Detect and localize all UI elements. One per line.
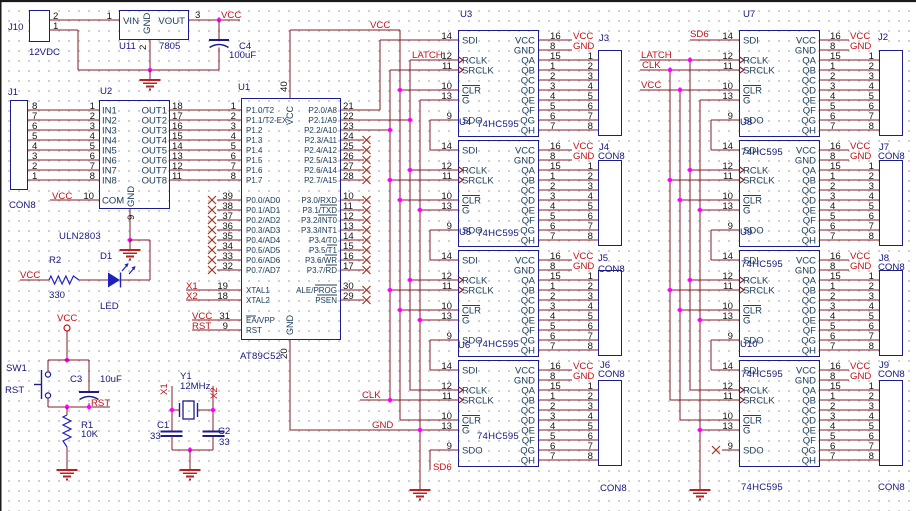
svg-text:SW1: SW1 xyxy=(6,363,27,374)
svg-text:P0.5/AD5: P0.5/AD5 xyxy=(246,246,281,255)
svg-text:P0.1/AD1: P0.1/AD1 xyxy=(246,206,281,215)
label CON8 bottom of column xyxy=(878,482,905,493)
svg-text:SDI: SDI xyxy=(462,256,478,267)
wire U3 SDO to U4 SDI loop xyxy=(430,120,458,150)
connector J8 xyxy=(878,253,905,356)
shift register U10 74HC595 xyxy=(739,339,820,493)
svg-text:28: 28 xyxy=(343,171,354,182)
svg-text:CLK: CLK xyxy=(642,60,661,71)
wire U2 OUT8 to U1 P1.7 xyxy=(170,171,241,182)
svg-text:P2.7/A15: P2.7/A15 xyxy=(304,176,337,185)
power port GND at U8 pin 8 xyxy=(820,151,871,162)
U10 SDO no-connect stub xyxy=(712,446,739,454)
svg-text:P0.6/AD6: P0.6/AD6 xyxy=(246,256,281,265)
wire U6 CLR xyxy=(400,419,458,421)
power port GND at U6 pin 8 xyxy=(539,371,594,382)
svg-text:QH: QH xyxy=(802,456,816,467)
wire J1 pin 7 to U2 IN2 xyxy=(28,111,99,122)
svg-text:P2.3/A11: P2.3/A11 xyxy=(305,136,338,145)
wires U4 QA-QH to J4 xyxy=(539,161,598,242)
ground symbol under crystal xyxy=(180,450,201,480)
wires U8 QA-QH to J7 xyxy=(820,161,879,242)
svg-text:8: 8 xyxy=(588,231,593,242)
wire U4 SDO to U5 SDI loop xyxy=(430,230,458,260)
wire U5 RCLK xyxy=(410,279,458,281)
svg-text:U1: U1 xyxy=(238,82,250,93)
net label LATCH right / wire U7 RCLK xyxy=(640,50,739,61)
shift register U7 74HC595 xyxy=(739,9,820,158)
svg-text:SDI: SDI xyxy=(743,256,759,267)
svg-text:SRCLK: SRCLK xyxy=(462,66,494,77)
power port GND at U3 pin 8 xyxy=(539,41,594,52)
U9 left pin numbers xyxy=(722,251,733,342)
svg-text:74HC595: 74HC595 xyxy=(477,228,519,239)
wires U9 QA-QH to J8 xyxy=(820,271,879,352)
wire U10 G xyxy=(700,429,739,431)
svg-text:P3.5/T1: P3.5/T1 xyxy=(309,246,338,255)
U3 right pin numbers xyxy=(550,31,561,132)
svg-text:D1: D1 xyxy=(100,251,112,262)
wire U9 SRCLK xyxy=(670,289,739,291)
svg-text:SRCLK: SRCLK xyxy=(462,396,494,407)
svg-text:X2: X2 xyxy=(209,387,220,399)
svg-text:8: 8 xyxy=(869,341,874,352)
wire U11 GND pin 2 xyxy=(138,40,150,70)
svg-text:J2: J2 xyxy=(878,32,888,43)
svg-text:VCC: VCC xyxy=(52,191,72,202)
power port VCC at U9 pin 16 xyxy=(820,251,870,262)
wire U2 GND pin 9 xyxy=(126,209,137,240)
wires U7 QA-QH to J2 xyxy=(820,51,879,132)
wire J1 pin 4 to U2 IN5 xyxy=(28,141,99,152)
driver U2 ULN2803 xyxy=(59,86,170,242)
svg-text:CLK: CLK xyxy=(362,390,381,401)
svg-text:U4: U4 xyxy=(459,117,472,128)
wires U10 QA-QH to J9 xyxy=(820,381,879,462)
net label SD6 / wire U6 SDO xyxy=(430,450,458,473)
U5 right pin numbers xyxy=(550,251,561,352)
wire U9 G xyxy=(700,319,739,321)
wire VCC to U1 EA/VPP pin 31 xyxy=(192,311,241,322)
wire VCC vertical right column xyxy=(679,90,681,420)
svg-text:C3: C3 xyxy=(70,374,82,385)
ground symbol under U11 xyxy=(140,70,161,90)
capacitor C3 10uF xyxy=(70,360,122,407)
wire U10 RCLK xyxy=(690,389,739,391)
svg-text:ALE/PROG: ALE/PROG xyxy=(296,286,337,295)
svg-text:P2.4/A12: P2.4/A12 xyxy=(304,146,337,155)
svg-text:P0.4/AD4: P0.4/AD4 xyxy=(246,236,281,245)
shift register U6 74HC595 xyxy=(458,340,539,467)
wire U8 RCLK xyxy=(690,169,739,171)
svg-text:P0.2/AD2: P0.2/AD2 xyxy=(246,216,281,225)
svg-text:P1.0/T2: P1.0/T2 xyxy=(246,106,275,115)
svg-text:QH: QH xyxy=(521,456,535,467)
wire C4 to ground rail xyxy=(218,48,220,71)
power port VCC at U10 pin 16 xyxy=(820,361,870,372)
crystal Y1 12MHz xyxy=(180,371,211,419)
svg-text:G: G xyxy=(743,96,750,107)
wire U1 P2.0 pin 21 to U3 SDI column xyxy=(341,40,380,112)
wire net X1 to U1 XTAL1 pin 19 xyxy=(186,281,241,292)
svg-text:P2.5/A13: P2.5/A13 xyxy=(304,156,337,165)
wire crystal left pin / net X1 xyxy=(159,383,180,431)
svg-text:QH: QH xyxy=(521,126,535,137)
U8 left pin numbers xyxy=(722,141,733,232)
switch SW1 RST xyxy=(5,360,51,407)
svg-text:QH: QH xyxy=(802,236,816,247)
wire U6 RCLK xyxy=(410,389,458,391)
power port VCC at U8 pin 16 xyxy=(820,141,870,152)
wire J1 pin 3 to U2 IN6 xyxy=(28,151,99,162)
svg-text:VIN: VIN xyxy=(123,16,139,27)
wire U1 VCC pin 40 to top rail xyxy=(279,20,400,98)
connector J9 xyxy=(878,360,905,466)
U8 right pin numbers xyxy=(830,141,841,242)
ground symbol under U2 xyxy=(120,240,141,260)
svg-text:VCC: VCC xyxy=(57,313,77,324)
U10 left pin numbers xyxy=(722,361,733,452)
svg-text:8: 8 xyxy=(588,341,593,352)
svg-text:AT89C52: AT89C52 xyxy=(240,351,281,362)
node reset top junction xyxy=(64,357,70,363)
power port VCC at U7 pin 16 xyxy=(820,31,870,42)
svg-text:U2: U2 xyxy=(100,86,112,97)
U1 P2.3-P2.7 no-connect stubs pins 24-28 xyxy=(341,131,371,184)
wire U4 SRCLK xyxy=(390,179,458,181)
svg-text:LATCH: LATCH xyxy=(412,50,443,61)
wire J1 pin 8 to U2 IN1 xyxy=(28,101,99,112)
svg-text:10K: 10K xyxy=(81,429,99,440)
svg-text:SD6: SD6 xyxy=(433,462,452,473)
svg-text:32: 32 xyxy=(222,261,233,272)
svg-text:P3.6/WR: P3.6/WR xyxy=(305,256,337,265)
wire VCC to R2 xyxy=(20,279,49,281)
wire J1 pin 5 to U2 IN4 xyxy=(28,131,99,142)
wire LATCH vertical right column xyxy=(689,60,691,390)
svg-text:P2.2/A10: P2.2/A10 xyxy=(304,126,337,135)
svg-text:8: 8 xyxy=(588,121,593,132)
wire U11 VOUT to VCC node xyxy=(189,10,240,21)
wire U5 SDO to U6 SDI loop xyxy=(430,340,458,370)
connector J7 xyxy=(878,142,905,246)
wire U8 SRCLK xyxy=(670,179,739,181)
wire U8 G xyxy=(700,209,739,211)
svg-text:CON8: CON8 xyxy=(878,151,905,162)
svg-text:U7: U7 xyxy=(743,9,755,20)
wires U5 QA-QH to J5 xyxy=(539,271,598,352)
power port VCC top-left xyxy=(221,10,241,21)
svg-text:CON8: CON8 xyxy=(878,262,905,273)
svg-text:J1: J1 xyxy=(8,87,18,98)
U7 left pin numbers xyxy=(722,31,733,122)
svg-text:QH: QH xyxy=(802,346,816,357)
U7 right pin numbers xyxy=(830,31,841,132)
svg-text:P1.2: P1.2 xyxy=(246,126,263,135)
wires U3 QA-QH to J3 xyxy=(539,51,598,132)
svg-text:20: 20 xyxy=(279,348,290,359)
svg-text:P2.1/A9: P2.1/A9 xyxy=(309,116,338,125)
connector J6 xyxy=(598,360,625,466)
connector J1 xyxy=(8,87,36,211)
svg-text:EA/VPP: EA/VPP xyxy=(246,316,275,325)
power port VCC at U4 pin 16 xyxy=(539,141,593,152)
wire reset top rail xyxy=(48,359,89,361)
connector J4 xyxy=(598,142,625,246)
U1 P3 no-connect stubs pins 10-17 xyxy=(341,191,371,274)
svg-text:G: G xyxy=(462,96,469,107)
svg-text:OUT8: OUT8 xyxy=(142,176,167,187)
wire U4 RCLK xyxy=(410,169,458,171)
svg-text:SDI: SDI xyxy=(462,36,478,47)
power port GND at U10 pin 8 xyxy=(820,371,871,382)
wire net X2 to U1 XTAL2 pin 18 xyxy=(186,291,241,302)
svg-text:11: 11 xyxy=(172,171,182,182)
svg-text:CON8: CON8 xyxy=(600,483,627,494)
svg-text:SRCLK: SRCLK xyxy=(743,66,775,77)
wire GND vertical right column xyxy=(699,100,701,490)
wire J1 pin 1 to U2 IN8 xyxy=(28,171,99,182)
wire J1 pin 6 to U2 IN3 xyxy=(28,121,99,132)
wire VCC vertical left column xyxy=(399,30,401,420)
svg-text:P2.0/A8: P2.0/A8 xyxy=(309,106,338,115)
svg-text:U5: U5 xyxy=(459,227,471,238)
ground symbol left column xyxy=(410,490,431,500)
net label LATCH left / wire U3 RCLK xyxy=(410,50,458,61)
wire net RST to U1 RST pin 9 xyxy=(192,321,241,332)
power port VCC at R2 xyxy=(20,270,40,281)
svg-text:G: G xyxy=(743,316,750,327)
svg-text:P0.3/AD3: P0.3/AD3 xyxy=(246,226,281,235)
net label GND left / wire U6 G to U1 GND pin xyxy=(290,420,458,431)
node reset bottom junctions xyxy=(64,404,92,410)
svg-text:G: G xyxy=(743,426,750,437)
power port GND at U9 pin 8 xyxy=(820,261,871,272)
wire U3 SRCLK xyxy=(390,69,458,71)
U10 right pin numbers xyxy=(830,361,841,462)
label CON8 bottom of column xyxy=(600,483,627,494)
svg-text:J10: J10 xyxy=(8,22,23,33)
svg-text:3: 3 xyxy=(195,10,200,21)
svg-text:10: 10 xyxy=(83,191,94,202)
power port GND at U7 pin 8 xyxy=(820,41,871,52)
svg-text:COM: COM xyxy=(102,196,124,207)
svg-text:12MHz: 12MHz xyxy=(180,381,211,392)
capacitor C4 100uF xyxy=(209,40,256,61)
svg-text:9: 9 xyxy=(126,215,137,220)
svg-text:RST: RST xyxy=(246,326,262,335)
svg-text:J5: J5 xyxy=(598,253,608,264)
wire U10 SRCLK xyxy=(670,399,739,401)
svg-text:U6: U6 xyxy=(458,340,470,351)
svg-text:U8: U8 xyxy=(740,117,752,128)
svg-text:U3: U3 xyxy=(460,9,472,20)
svg-text:QH: QH xyxy=(521,236,535,247)
svg-text:SDI: SDI xyxy=(743,366,759,377)
svg-text:12VDC: 12VDC xyxy=(29,47,60,58)
svg-text:P3.1/TXD: P3.1/TXD xyxy=(302,206,337,215)
svg-text:XTAL1: XTAL1 xyxy=(246,286,270,295)
svg-text:P3.7/RD: P3.7/RD xyxy=(307,266,337,275)
shift register U3 74HC595 xyxy=(458,9,539,137)
wire VCC down to C4 xyxy=(218,20,220,40)
svg-text:G: G xyxy=(462,426,469,437)
svg-text:CON8: CON8 xyxy=(878,369,905,380)
power port GND at U5 pin 8 xyxy=(539,261,594,272)
svg-text:100uF: 100uF xyxy=(229,50,256,61)
svg-text:SRCLK: SRCLK xyxy=(743,286,775,297)
node VCC junction at C4 xyxy=(216,17,222,23)
node junctions left column xyxy=(387,87,423,433)
svg-text:U11: U11 xyxy=(119,41,136,52)
svg-text:SRCLK: SRCLK xyxy=(743,396,775,407)
svg-text:P3.4/T0: P3.4/T0 xyxy=(309,236,338,245)
svg-text:G: G xyxy=(743,206,750,217)
svg-text:VCC: VCC xyxy=(285,105,295,125)
svg-text:P0.7/AD7: P0.7/AD7 xyxy=(246,266,281,275)
svg-text:9: 9 xyxy=(223,321,228,332)
microcontroller U1 AT89C52 xyxy=(238,82,341,362)
shift register U5 74HC595 xyxy=(458,227,539,357)
svg-text:2: 2 xyxy=(138,45,149,50)
svg-text:GND: GND xyxy=(372,420,393,431)
wire VCC to reset rail xyxy=(66,331,68,360)
svg-text:LED: LED xyxy=(100,301,119,312)
svg-text:VOUT: VOUT xyxy=(158,16,185,27)
svg-text:RST: RST xyxy=(5,385,24,396)
wire U5 G xyxy=(420,319,458,321)
wire U2 OUT5 to U1 P1.4 xyxy=(170,141,241,152)
connector J2 xyxy=(878,32,903,136)
wire U2 OUT4 to U1 P1.3 xyxy=(170,131,241,142)
svg-text:8: 8 xyxy=(90,171,95,182)
wire U4 CLR xyxy=(400,199,458,201)
svg-text:33: 33 xyxy=(219,437,230,448)
svg-text:VCC: VCC xyxy=(221,10,241,21)
svg-text:RST: RST xyxy=(192,321,211,332)
svg-text:SD6: SD6 xyxy=(690,29,709,40)
svg-text:GND: GND xyxy=(285,315,295,336)
wire U3 G xyxy=(420,99,458,101)
svg-text:74HC595: 74HC595 xyxy=(477,119,519,130)
svg-text:P3.0/RXD: P3.0/RXD xyxy=(301,196,337,205)
wire J1 pin 2 to U2 IN7 xyxy=(28,161,99,172)
svg-text:C1: C1 xyxy=(157,420,169,431)
svg-text:29: 29 xyxy=(343,291,354,302)
svg-text:18: 18 xyxy=(217,291,228,302)
wire U2 OUT6 to U1 P1.5 xyxy=(170,151,241,162)
wire LED to U2 ground node xyxy=(121,240,150,280)
svg-text:SDI: SDI xyxy=(462,146,478,157)
U1 P0 no-connect stubs pins 39-32 xyxy=(208,191,241,274)
svg-text:P3.3/INT1: P3.3/INT1 xyxy=(301,226,338,235)
U1 ALE/PSEN no-connect stubs pins 30 29 xyxy=(341,281,371,304)
power port VCC at U6 pin 16 xyxy=(539,361,593,372)
svg-text:CON8: CON8 xyxy=(598,151,625,162)
svg-text:8: 8 xyxy=(869,451,874,462)
svg-text:P3.2/INT0: P3.2/INT0 xyxy=(301,216,338,225)
wire U8 CLR xyxy=(680,199,739,201)
svg-text:SRCLK: SRCLK xyxy=(462,286,494,297)
svg-text:8: 8 xyxy=(869,231,874,242)
wire U4 G xyxy=(420,209,458,211)
wire U2 OUT1 to U1 P1.0 xyxy=(170,101,241,112)
svg-text:74HC595: 74HC595 xyxy=(477,431,519,442)
wire U3 SDI xyxy=(380,39,458,41)
wire GND vertical left column xyxy=(419,100,421,490)
wire U7 G xyxy=(700,99,739,101)
power port VCC at reset xyxy=(57,313,77,331)
svg-text:40: 40 xyxy=(279,81,290,92)
net label SD6 right / wire U7 SDI xyxy=(690,29,739,40)
U6 left pin numbers xyxy=(441,361,452,452)
svg-text:P2.6/A14: P2.6/A14 xyxy=(304,166,337,175)
wire U1 P2.2 pin 23 to CLK column xyxy=(341,121,390,132)
svg-text:X2: X2 xyxy=(186,291,198,302)
svg-text:8: 8 xyxy=(231,171,236,182)
wire reset bottom rail / net RST xyxy=(48,398,110,409)
connector J10 xyxy=(8,11,60,59)
svg-text:P1.5: P1.5 xyxy=(246,156,263,165)
node ground rail junction xyxy=(147,67,153,73)
wire U9 CLR xyxy=(680,309,739,311)
ground symbol under R1 xyxy=(57,470,78,480)
svg-text:GND: GND xyxy=(142,13,153,34)
wire U5 CLR xyxy=(400,309,458,311)
wire U1 GND pin 20 down xyxy=(279,340,290,430)
svg-text:17: 17 xyxy=(343,261,354,272)
U9 right pin numbers xyxy=(830,251,841,352)
U6 right pin numbers xyxy=(550,361,561,462)
svg-text:10uF: 10uF xyxy=(100,374,122,385)
svg-text:R2: R2 xyxy=(49,255,61,266)
svg-text:VCC: VCC xyxy=(370,20,390,31)
svg-text:J3: J3 xyxy=(599,33,609,44)
wire J10 pin2 to U11 VIN xyxy=(50,11,119,22)
svg-text:1: 1 xyxy=(53,21,58,32)
wire LATCH vertical left column xyxy=(409,60,411,390)
net label CLK right / wire U7 SRCLK xyxy=(640,60,739,71)
wire U8 SDO to U9 SDI loop xyxy=(711,230,739,260)
svg-text:C2: C2 xyxy=(218,426,230,437)
svg-text:CON8: CON8 xyxy=(9,200,36,211)
svg-text:ULN2803: ULN2803 xyxy=(59,231,101,242)
node junctions right column xyxy=(667,57,703,433)
svg-text:1: 1 xyxy=(107,11,112,22)
svg-text:X1: X1 xyxy=(159,383,170,395)
svg-text:XTAL2: XTAL2 xyxy=(246,296,270,305)
svg-text:CON8: CON8 xyxy=(598,369,625,380)
shift register U4 74HC595 xyxy=(458,117,539,247)
wires U6 QA-QH to J6 xyxy=(539,381,598,462)
net label VCC right / wire U7 CLR xyxy=(640,80,739,91)
svg-text:P1.1/T2-EX: P1.1/T2-EX xyxy=(246,116,288,125)
wire U3 CLR to VCC column xyxy=(400,89,458,91)
resistor R2 330 xyxy=(49,255,79,301)
wire VCC to U2 COM pin 10 xyxy=(50,191,99,202)
ground rail top-left xyxy=(78,69,219,71)
node crystal pin junctions xyxy=(169,407,216,413)
wire crystal right pin / net X2 xyxy=(198,386,221,431)
U5 left pin numbers xyxy=(441,251,452,342)
svg-text:SDO: SDO xyxy=(462,446,483,457)
wire U1 P2.1 pin 22 to LATCH column xyxy=(341,111,410,122)
power port VCC at U3 pin 16 xyxy=(539,31,593,42)
wire R2 to LED D1 xyxy=(79,279,108,281)
svg-text:GND: GND xyxy=(126,186,137,207)
svg-text:SRCLK: SRCLK xyxy=(743,176,775,187)
wire U5 SRCLK xyxy=(390,289,458,291)
